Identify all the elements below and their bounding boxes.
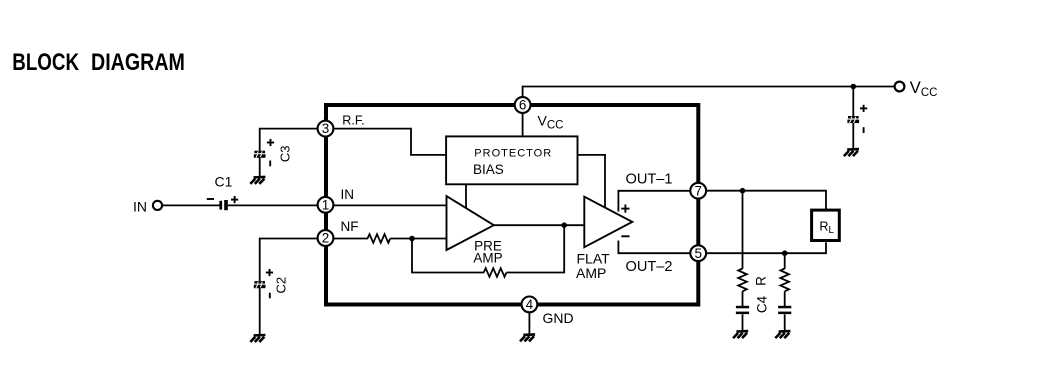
svg-text:R: R (754, 276, 769, 286)
ground below C3 (250, 177, 265, 184)
op-amp PRE AMP (447, 196, 494, 250)
svg-text:OUT–2: OUT–2 (626, 259, 673, 275)
wire pin 1 to pre amp input (333, 204, 447, 206)
svg-text:AMP: AMP (473, 251, 502, 266)
minus sign of C1 (207, 198, 214, 200)
plus sign of VCC bypass capacitor (860, 105, 867, 112)
svg-text:5: 5 (694, 246, 702, 261)
op-amp FLAT AMP (584, 197, 632, 248)
svg-text:6: 6 (519, 98, 527, 113)
wire OUT-1 rail (618, 191, 690, 212)
wire capacitor to ground branch 2 (784, 314, 786, 330)
capacitor C3 (254, 151, 266, 158)
wire feedback loop (412, 239, 484, 273)
resistor feedback (zigzag) (484, 268, 507, 277)
svg-text:BIAS: BIAS (473, 162, 504, 177)
resistor R branch 2 (zigzag) (780, 269, 789, 292)
svg-text:AMP: AMP (576, 265, 606, 281)
svg-text:IN: IN (341, 187, 355, 202)
wire feedback resistor to output node (507, 225, 565, 272)
svg-text:VCC: VCC (910, 79, 938, 99)
wire pin 2 to NF resistor (333, 238, 368, 240)
svg-text:C1: C1 (215, 173, 233, 189)
svg-text:GND: GND (543, 310, 574, 326)
wire bypass capacitor to ground (852, 123, 854, 149)
svg-text:BLOCK: BLOCK (12, 49, 79, 76)
pin 3 (318, 121, 334, 137)
plus sign of C2 (266, 269, 273, 276)
svg-text:C4: C4 (755, 295, 770, 313)
wire NF resistor to pre amp input (390, 238, 446, 240)
minus sign of C2 (269, 293, 271, 299)
node junction on pin 7 wire (740, 188, 746, 194)
resistor RL (load box) (812, 210, 840, 240)
minus sign of VCC bypass capacitor (863, 127, 865, 133)
wire C3 to ground (259, 157, 261, 177)
wire pin 7 to load (707, 191, 826, 211)
ground below C2 (250, 335, 265, 342)
svg-text:C2: C2 (274, 277, 289, 294)
ground below VCC bypass capacitor (844, 149, 859, 156)
capacitor C2 (254, 281, 266, 288)
wire resistor to capacitor branch 1 (742, 291, 744, 306)
svg-text:3: 3 (322, 121, 330, 136)
pin 5 (690, 245, 706, 261)
wire branch 1 down from pin 7 wire (742, 191, 744, 269)
wire pin 6 to VCC rail (523, 87, 894, 98)
wire protector block to pre amp (465, 184, 467, 209)
wire pin 6 to protector block (522, 113, 524, 136)
capacitor VCC bypass (847, 116, 859, 123)
node pre amp output junction (561, 222, 567, 228)
plus sign of C1 (231, 196, 238, 203)
wire C2 to ground (259, 287, 261, 334)
svg-text:2: 2 (322, 231, 330, 246)
VCC terminal circle (895, 82, 905, 92)
plus sign of C3 (267, 139, 274, 146)
wire pin 3 to protector block (333, 129, 446, 155)
pin 6 (515, 97, 531, 113)
protector bias block (446, 136, 577, 184)
svg-text:DIAGRAM: DIAGRAM (91, 49, 185, 76)
IN terminal circle (153, 201, 162, 210)
ground below pin 4 (520, 334, 535, 341)
resistor NF (zigzag) (368, 234, 391, 243)
svg-text:OUT–1: OUT–1 (626, 172, 673, 188)
minus sign of C3 (269, 161, 271, 167)
pin 7 (690, 183, 706, 199)
wire VCC junction to bypass capacitor (852, 87, 854, 117)
wire pin 4 to ground (528, 312, 530, 334)
ground branch 1 (733, 331, 748, 338)
wire protector block to flat amp (578, 155, 606, 208)
node junction on pin 5 wire (782, 250, 788, 256)
svg-text:IN: IN (133, 198, 147, 214)
svg-text:VCC: VCC (538, 112, 564, 131)
ground branch 2 (775, 331, 790, 338)
svg-text:7: 7 (694, 183, 702, 198)
wire C3 branch to pin 3 (260, 129, 317, 151)
wire branch 2 down from pin 5 wire (784, 253, 786, 269)
wire OUT-2 rail (618, 241, 690, 254)
node NF junction (409, 236, 415, 242)
svg-text:1: 1 (322, 197, 330, 212)
wire pin 2 to C2 branch (260, 239, 317, 282)
wire IN terminal to pin 1 (163, 204, 220, 206)
wire pre amp output to flat amp (494, 224, 585, 226)
pin 1 (318, 197, 334, 213)
capacitor C1 (219, 200, 227, 210)
minus sign of flat amp output (621, 235, 629, 237)
wire capacitor to ground branch 1 (742, 314, 744, 330)
wire resistor to capacitor branch 2 (784, 291, 786, 306)
svg-text:R.F.: R.F. (342, 113, 364, 127)
capacitor C4 branch 2 (778, 306, 791, 314)
resistor R branch 1 (zigzag) (738, 269, 747, 292)
capacitor C4 branch 1 (736, 306, 749, 314)
plus sign of flat amp output (621, 205, 629, 213)
IC outline (326, 105, 698, 305)
svg-text:NF: NF (341, 219, 359, 234)
svg-text:C3: C3 (278, 145, 293, 162)
pin 4 (522, 297, 538, 313)
svg-text:4: 4 (526, 297, 534, 312)
svg-text:PROTECTOR: PROTECTOR (474, 147, 552, 159)
wire pin 5 to load (707, 242, 826, 253)
pin 2 (318, 230, 334, 246)
node VCC bypass junction (851, 84, 857, 90)
